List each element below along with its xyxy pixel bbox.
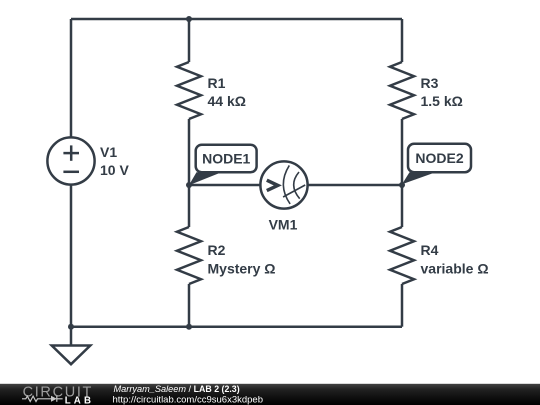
junction dot: bottom rail / middle branch bbox=[186, 324, 192, 330]
svg-text:NODE2: NODE2 bbox=[415, 150, 463, 166]
node label NODE1 bbox=[189, 145, 257, 186]
resistor R4 bbox=[390, 227, 414, 284]
svg-text:44 kΩ: 44 kΩ bbox=[208, 93, 246, 109]
svg-text:10 V: 10 V bbox=[100, 162, 129, 178]
wire: middle branch top (rail to R1) bbox=[188, 19, 191, 62]
junction dot: NODE1 bbox=[186, 182, 192, 188]
svg-text:Marryam_Saleem / LAB 2 (2.3): Marryam_Saleem / LAB 2 (2.3) bbox=[114, 384, 240, 394]
resistor R1 bbox=[177, 62, 201, 119]
wire: left branch upper bbox=[70, 19, 73, 137]
wire: ground stub bbox=[70, 327, 73, 346]
svg-text:1.5 kΩ: 1.5 kΩ bbox=[421, 93, 463, 109]
resistor R3 bbox=[390, 62, 414, 119]
wire: right branch top (rail to R3) bbox=[401, 19, 404, 62]
svg-text:R1: R1 bbox=[208, 75, 226, 91]
svg-text:LAB: LAB bbox=[65, 395, 95, 405]
wire: R3 to NODE2 bbox=[401, 119, 404, 185]
svg-text:Mystery Ω: Mystery Ω bbox=[208, 261, 276, 277]
svg-text:variable Ω: variable Ω bbox=[421, 261, 489, 277]
svg-text:V1: V1 bbox=[100, 144, 117, 160]
voltmeter VM1 bbox=[260, 161, 307, 208]
wire: bottom rail bbox=[71, 325, 402, 328]
wire: top rail bbox=[71, 18, 402, 21]
wire: R1 to NODE1 bbox=[188, 119, 191, 185]
wire: NODE2 to R4 bbox=[401, 185, 404, 227]
wire: R4 to bottom rail bbox=[401, 284, 404, 327]
ground bbox=[52, 346, 91, 365]
junction dot: NODE2 bbox=[399, 182, 405, 188]
node label NODE2 bbox=[402, 144, 471, 185]
junction dot: bottom rail / ground bbox=[68, 324, 74, 330]
svg-text:VM1: VM1 bbox=[269, 217, 298, 233]
junction dot: top rail / middle branch bbox=[186, 16, 192, 22]
svg-text:http://circuitlab.com/cc9su6x3: http://circuitlab.com/cc9su6x3kdpeb bbox=[113, 394, 264, 405]
svg-text:R3: R3 bbox=[421, 75, 439, 91]
resistor R2 bbox=[177, 227, 201, 284]
wire: left branch lower bbox=[70, 185, 73, 327]
wire: NODE1 to R2 bbox=[188, 185, 191, 227]
wire: R2 to bottom rail bbox=[188, 284, 191, 327]
logo squiggle (resistor + diode) bbox=[22, 396, 63, 402]
svg-text:NODE1: NODE1 bbox=[202, 151, 250, 167]
wire: NODE1 to voltmeter bbox=[189, 184, 260, 187]
voltage source V1 bbox=[47, 137, 94, 184]
wire: voltmeter to NODE2 bbox=[308, 184, 402, 187]
svg-text:R2: R2 bbox=[208, 242, 226, 258]
svg-text:R4: R4 bbox=[421, 242, 439, 258]
